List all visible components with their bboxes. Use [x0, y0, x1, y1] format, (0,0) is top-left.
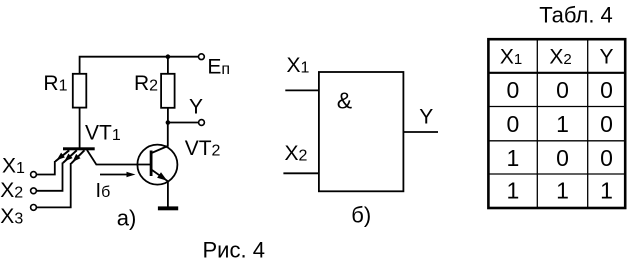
truth table outer border: [488, 39, 625, 208]
truth table header separator: [488, 72, 625, 74]
transistor VT2 (circle): [137, 145, 177, 185]
svg-text:0: 0: [556, 145, 569, 171]
VT2 emitter with arrow: [152, 170, 168, 207]
wire: power rail from R1 top to Еп terminal: [80, 57, 199, 74]
svg-text:1: 1: [556, 111, 569, 137]
svg-text:б): б): [351, 203, 371, 228]
output terminal Y (open circle): [199, 120, 205, 126]
VT2 collector: [152, 123, 168, 154]
wire: VT1 collector to VT2 base: [87, 150, 150, 165]
junction dot at power rail / R2: [166, 54, 171, 59]
resistor R2: [161, 74, 175, 108]
svg-text:1: 1: [556, 178, 569, 204]
resistor R1: [73, 74, 87, 108]
wire: rail junction to R2 top: [167, 57, 169, 74]
wire: emitter 3 to input terminal X3: [37, 163, 71, 207]
gate input X2 wire: [283, 172, 319, 174]
svg-text:0: 0: [556, 77, 569, 103]
VT1 emitter 1 (arrow toward X1): [55, 150, 69, 161]
svg-text:0: 0: [600, 77, 613, 103]
gate input X1 wire: [285, 89, 319, 91]
VT1 emitter 3 (arrow toward X3): [71, 150, 84, 163]
svg-text:0: 0: [600, 111, 613, 137]
wire: R2 bottom to Y node: [167, 108, 169, 123]
input terminal X3 (open circle): [31, 205, 37, 211]
input terminal X1 (open circle): [31, 172, 37, 178]
svg-text:0: 0: [507, 111, 520, 137]
VT1 emitter 2 (arrow toward X2): [63, 150, 77, 163]
transistor VT1 base bar: [63, 147, 95, 150]
svg-text:Y: Y: [419, 105, 433, 128]
svg-text:Y: Y: [189, 95, 203, 118]
node Y (junction dot): [166, 120, 171, 125]
input terminal X2 (open circle): [31, 188, 37, 194]
wire: emitter 1 to input terminal X1: [37, 161, 55, 175]
power terminal Еп (open circle): [199, 54, 205, 60]
svg-text:1: 1: [600, 178, 613, 204]
wire: Y node to output terminal: [168, 122, 199, 124]
truth table row line 3: [488, 173, 625, 175]
svg-text:Рис. 4: Рис. 4: [203, 238, 265, 262]
svg-text:1: 1: [507, 178, 520, 204]
VT2 base bar: [150, 151, 153, 177]
svg-text:Iб: Iб: [96, 180, 111, 202]
truth table column line 2: [587, 39, 589, 208]
truth table column line 1: [536, 39, 538, 208]
truth table row line 2: [488, 140, 625, 142]
svg-text:&: &: [337, 88, 352, 114]
svg-text:Табл. 4: Табл. 4: [539, 3, 613, 28]
wire: R1 bottom to VT1 base bar: [79, 108, 81, 148]
svg-text:1: 1: [507, 145, 520, 171]
base current arrow Iб: [100, 174, 128, 176]
AND gate U1 (logic symbol): [319, 72, 404, 191]
ground: [158, 206, 178, 210]
svg-text:а): а): [117, 206, 137, 231]
gate output Y wire: [403, 131, 438, 133]
truth table row line 1: [488, 106, 625, 108]
wire: emitter 2 to input terminal X2: [37, 163, 63, 191]
svg-text:0: 0: [600, 145, 613, 171]
svg-text:0: 0: [507, 77, 520, 103]
svg-text:Y: Y: [599, 46, 613, 69]
